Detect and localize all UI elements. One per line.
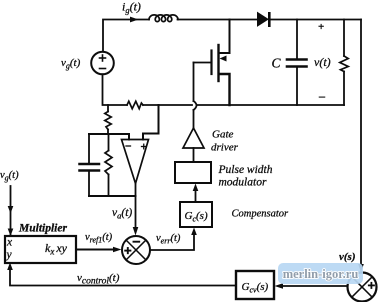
wire multiplier output v_ref1	[76, 249, 114, 251]
summing node 1	[122, 236, 150, 264]
resistor Rs (current sense, bottom rail)	[127, 101, 143, 108]
PWM box	[175, 162, 211, 183]
arrow into multiplier y input	[7, 263, 13, 271]
svg-text:ig(t): ig(t)	[122, 0, 141, 15]
capacitor C output	[287, 20, 307, 106]
svg-text:C: C	[272, 56, 282, 71]
wire v_g sense line	[10, 186, 12, 235]
arrow mid sense	[8, 206, 14, 214]
label Gc(s)	[185, 210, 208, 224]
wire op-amp plus input riser	[143, 105, 159, 140]
wire PWM to driver	[193, 148, 195, 162]
op-amp U1	[122, 140, 149, 184]
wire op-amp minus input net	[89, 134, 129, 140]
body arrow	[220, 56, 227, 62]
label v(t)	[314, 55, 331, 69]
watermark merlin-igor.ru	[278, 263, 363, 284]
label v(s)	[339, 251, 356, 263]
resistor load R	[340, 20, 348, 106]
svg-text:+: +	[318, 21, 324, 33]
label Gate driver	[211, 129, 239, 154]
arrow into summing node 2	[358, 264, 364, 273]
wire node2 to Gcv	[283, 285, 348, 287]
svg-text:vg(t): vg(t)	[0, 170, 19, 183]
label v_err(t)	[156, 233, 181, 246]
arrow v_err into Gc box	[191, 228, 197, 236]
svg-text:v(s): v(s)	[339, 251, 356, 263]
svg-text:kxxy: kxxy	[45, 241, 68, 257]
arrow v_a into summing node 1	[133, 227, 139, 236]
source lead	[219, 74, 230, 105]
wire v_err	[150, 234, 194, 250]
inductor L	[149, 15, 178, 22]
arrow i_g on top rail	[130, 17, 139, 23]
label v_a(t)	[112, 207, 132, 221]
gate driver triangle	[183, 128, 204, 148]
svg-text:x: x	[6, 237, 13, 249]
arrow into Gcv box	[275, 283, 284, 289]
label + output	[318, 21, 324, 33]
svg-text:Gc(s): Gc(s)	[185, 210, 208, 224]
wire op-amp output v_a	[135, 184, 137, 229]
Gcv box	[236, 271, 274, 299]
wire feedback bottom	[89, 195, 136, 197]
label v_ref1(t)	[85, 232, 113, 245]
resistor R1 (divider from rail)	[105, 105, 111, 134]
arrow into multiplier x input	[8, 229, 14, 237]
resistor R2 (feedback)	[105, 134, 112, 196]
capacitor C2 (feedback)	[80, 134, 100, 196]
label k_x xy	[45, 241, 68, 257]
wire Gc to PWM	[195, 190, 197, 202]
svg-text:–: –	[318, 89, 326, 103]
wire top rail right segment	[271, 19, 362, 21]
wire bottom rail output section	[230, 104, 345, 106]
wire bottom rail to hop	[143, 104, 192, 106]
label v_control(t)	[77, 272, 120, 287]
svg-text:merlin-igor.ru: merlin-igor.ru	[283, 267, 359, 281]
svg-text:y: y	[6, 249, 13, 261]
svg-text:v(t): v(t)	[314, 55, 331, 69]
svg-text:Gate: Gate	[212, 129, 234, 141]
svg-text:Compensator: Compensator	[232, 209, 290, 220]
svg-text:Pulse width: Pulse width	[218, 164, 273, 176]
channel bar	[217, 45, 219, 81]
wire output sense feedback (right side)	[360, 20, 362, 266]
label i_g(t)	[122, 0, 141, 15]
label v_g(t) sense	[0, 170, 19, 183]
wire top rail left segment	[103, 20, 149, 52]
compensator box Gc(s)	[180, 202, 212, 227]
label Multiplier	[18, 223, 67, 235]
label y input	[6, 249, 13, 261]
wire source bottom lead	[103, 74, 128, 105]
wire driver to gate with hop	[194, 63, 197, 129]
svg-text:va(t): va(t)	[112, 207, 132, 221]
arrow into summing node 1	[113, 247, 122, 253]
svg-text:Multiplier: Multiplier	[18, 223, 67, 235]
wire hop at gate line	[197, 104, 230, 106]
MOSFET Q1	[194, 20, 230, 106]
label - output	[318, 89, 326, 103]
svg-text:driver: driver	[211, 142, 239, 154]
label x input	[6, 237, 13, 249]
wire v_control	[10, 269, 236, 286]
gate lead	[194, 62, 211, 64]
summing node 2	[348, 273, 377, 302]
svg-text:vg(t): vg(t)	[61, 57, 81, 71]
label Gcv(s)	[242, 281, 269, 295]
wire top rail middle segment	[178, 19, 258, 21]
voltage source v_g	[91, 52, 114, 75]
diode D1	[258, 12, 271, 27]
label C	[272, 56, 282, 71]
label Pulse width modulator	[218, 164, 273, 189]
label Compensator	[232, 209, 290, 220]
label v_g(t) source	[61, 57, 81, 71]
svg-text:modulator: modulator	[219, 177, 267, 189]
multiplier box	[5, 236, 76, 263]
gate bar	[210, 51, 212, 75]
arrow into PWM	[193, 184, 199, 192]
drain lead	[219, 20, 230, 54]
